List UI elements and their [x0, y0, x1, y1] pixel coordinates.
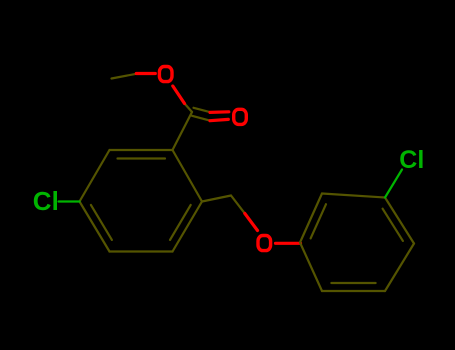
wire ester O to carbonyl C (olive half)	[185, 104, 193, 113]
wire edge BR-BL bottom	[110, 250, 173, 252]
carbonyl C=O double bond upper (red half)	[210, 110, 229, 114]
wire O ether to ring2	[276, 242, 301, 245]
wire edge TL-TR top	[322, 194, 385, 198]
wire ring1 TR to carbonyl C	[173, 112, 193, 150]
wire CH2 to O ether (red half)	[245, 213, 258, 230]
wire edge TR-R	[173, 150, 203, 202]
svg-text:Cl: Cl	[399, 146, 424, 174]
benzene ring 1 (left, chlorobenzoate ring)	[80, 74, 245, 252]
chlorine Cl1 bond (green)	[59, 200, 80, 202]
ester O label	[159, 67, 172, 82]
wire edge BR-BL bottom	[322, 290, 385, 292]
wire edge TR-R	[385, 198, 414, 244]
double bond inner line BL-L	[91, 205, 112, 240]
wire methyl CH3 to ester O (olive half)	[112, 74, 137, 79]
wire edge BL-L	[300, 243, 322, 292]
chlorine Cl2 bond (green)	[385, 170, 402, 198]
ester group red bonds	[136, 74, 300, 244]
carbonyl O label	[234, 109, 247, 124]
wire CH2 to O ether (olive half)	[231, 196, 245, 214]
double bond inner line top	[118, 157, 166, 159]
wire edge R-BR	[385, 244, 414, 292]
double bond inner line TR-R	[383, 209, 403, 241]
carbonyl C=O upper (olive half)	[194, 108, 211, 112]
wire edge L-TL	[80, 150, 110, 202]
wire ring1 R to CH2	[202, 196, 231, 202]
wire edge TL-TR top	[110, 149, 173, 151]
wire edge L-TL	[300, 194, 322, 243]
benzene ring 2 (right, chlorophenyl ring)	[300, 194, 414, 292]
wire edge R-BR	[173, 202, 203, 252]
wire methyl CH3 to ester O (red half)	[136, 72, 155, 75]
double bond inner line L-TL	[311, 204, 326, 238]
ether O label	[258, 236, 271, 251]
double bond inner line BR-BL	[331, 282, 375, 284]
double bond inner line R-BR	[170, 205, 191, 240]
wire ester O to carbonyl C (red half)	[173, 86, 185, 104]
carbonyl C=O lower (olive half)	[192, 116, 210, 121]
svg-text:Cl: Cl	[33, 186, 59, 216]
wire edge BL-L	[80, 202, 110, 252]
carbonyl C=O double bond lower (red half)	[210, 119, 228, 120]
